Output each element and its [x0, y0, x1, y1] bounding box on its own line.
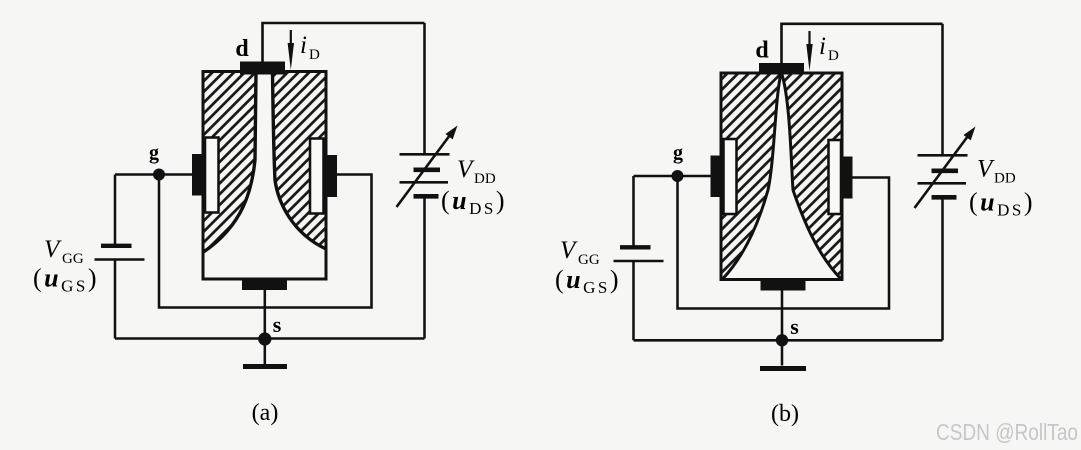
svg-text:CSDN @RollTao: CSDN @RollTao [936, 419, 1078, 445]
drain wire and top rail (a) [263, 23, 425, 62]
source node dot s (b) [776, 334, 788, 346]
variable source arrow (b) [915, 136, 969, 208]
svg-text:i: i [300, 32, 307, 59]
battery VDD plate 2 short (a) [414, 168, 441, 173]
svg-text:V: V [457, 156, 475, 183]
svg-text:DD: DD [994, 171, 1016, 187]
svg-text:(uGS): (uGS) [33, 264, 99, 296]
svg-text:(uGS): (uGS) [555, 265, 621, 297]
gate contact bar right (a) [327, 155, 338, 197]
ground stub (b) [781, 340, 784, 365]
svg-text:(uDS): (uDS) [441, 186, 507, 218]
battery VGG positive plate (a) [101, 244, 132, 248]
battery VDD plate 4 short (b) [932, 195, 957, 200]
current arrow iD (a) [290, 30, 292, 50]
depletion boundary curve left (a) [204, 72, 257, 252]
battery VGG wire lower (a) [114, 260, 117, 339]
svg-text:d: d [235, 36, 249, 62]
svg-text:DD: DD [474, 171, 496, 187]
JFET body outline (b) [721, 73, 842, 280]
svg-text:V: V [977, 156, 995, 183]
gate loop wire (a) [159, 175, 372, 308]
drain wire and top rail (b) [782, 24, 943, 64]
svg-text:V: V [560, 237, 578, 264]
svg-text:g: g [673, 142, 683, 164]
battery VGG wire upper (b) [632, 176, 635, 246]
ground bar (b) [760, 366, 806, 371]
svg-text:i: i [819, 33, 826, 60]
gate contact bar right (b) [842, 157, 853, 199]
source wire (b) [781, 291, 784, 341]
gate wire left (a) [115, 173, 192, 176]
svg-text:(uDS): (uDS) [969, 188, 1035, 220]
depletion boundary curve right (b) [782, 74, 841, 279]
battery VDD plate 3 long (b) [918, 182, 967, 185]
JFET body outline (a) [203, 72, 326, 280]
gate p+ region right (b) [829, 140, 842, 214]
depletion region hatch left (a) [204, 73, 257, 252]
svg-text:D: D [309, 47, 320, 63]
battery VGG negative plate (b) [614, 260, 664, 263]
gate p+ region left (b) [724, 139, 737, 214]
battery VDD plate 2 short (b) [932, 169, 959, 174]
ground bar (a) [243, 364, 287, 369]
source contact bar (b) [761, 280, 806, 291]
gate node dot (a) [153, 169, 165, 181]
svg-text:(a): (a) [252, 400, 279, 426]
gate wire left (b) [634, 175, 711, 178]
gate loop wire (b) [678, 176, 890, 309]
battery VGG negative plate (a) [95, 258, 145, 261]
depletion boundary curve left (b) [723, 74, 781, 279]
svg-text:d: d [755, 38, 769, 64]
depletion region hatch right (b) [782, 75, 840, 279]
battery VDD plate 1 long (b) [918, 154, 968, 157]
battery VDD wire upper (b) [941, 24, 944, 156]
svg-text:V: V [44, 236, 62, 263]
depletion boundary curve right (a) [273, 72, 327, 249]
current arrow iD (b) [808, 31, 810, 51]
battery VGG wire lower (b) [632, 261, 635, 340]
depletion region hatch left (b) [722, 75, 780, 279]
depletion region hatch right (a) [273, 73, 326, 249]
svg-text:s: s [273, 312, 282, 337]
source wire (a) [264, 290, 267, 339]
bottom rail (a) [115, 337, 425, 340]
gate node dot (b) [672, 170, 684, 182]
battery VDD plate 4 short (a) [414, 194, 439, 199]
gate contact bar left (b) [711, 156, 722, 198]
svg-text:s: s [790, 314, 799, 339]
battery VDD plate 3 long (a) [400, 181, 449, 184]
battery VDD wire lower (a) [423, 196, 426, 338]
battery VGG positive plate (b) [620, 245, 651, 249]
svg-text:(b): (b) [771, 401, 799, 427]
source node dot s (a) [258, 332, 271, 345]
svg-text:D: D [828, 48, 839, 64]
drain contact bar (b) [759, 63, 804, 75]
gate p+ region right (a) [310, 139, 324, 214]
variable source arrow (a) [397, 135, 451, 207]
svg-text:GG: GG [62, 251, 84, 267]
bottom rail (b) [634, 339, 943, 342]
gate p+ region left (a) [205, 138, 219, 213]
battery VDD plate 1 long (a) [400, 153, 450, 156]
source contact bar (a) [242, 280, 287, 291]
battery VDD wire lower (b) [941, 197, 944, 340]
gate contact bar left (a) [192, 154, 203, 196]
source VDD wire upper (a) [423, 23, 426, 154]
svg-text:g: g [149, 142, 159, 164]
drain contact bar (a) [240, 62, 285, 75]
battery VGG wire upper (a) [114, 175, 117, 245]
ground stub (a) [264, 339, 267, 365]
